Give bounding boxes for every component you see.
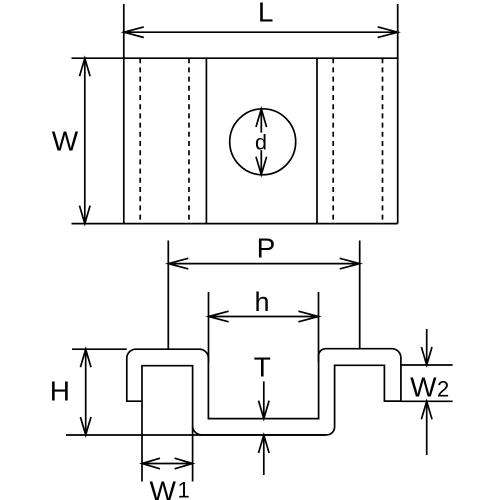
dimension L line	[124, 27, 398, 38]
dimension W2	[401, 329, 453, 455]
svg-text:P: P	[257, 233, 276, 264]
hidden line right leg inner	[382, 58, 384, 223]
top view interior edge right	[316, 58, 318, 223]
svg-text:W: W	[52, 126, 79, 157]
dimension P	[168, 241, 359, 350]
hole circle	[230, 109, 296, 175]
svg-text:L: L	[258, 0, 274, 28]
svg-text:1: 1	[178, 478, 190, 500]
svg-text:T: T	[254, 351, 271, 382]
dimension d arrow	[256, 109, 267, 175]
label W2	[410, 372, 449, 403]
top view outline	[72, 4, 398, 224]
dimension W1	[142, 401, 193, 481]
hidden line right wall	[332, 58, 334, 223]
hidden line left wall	[188, 58, 190, 223]
baseline	[66, 434, 326, 436]
svg-text:H: H	[50, 376, 70, 407]
hidden line left leg inner	[139, 58, 141, 223]
svg-text:h: h	[254, 287, 269, 317]
dimension T arrows	[259, 381, 270, 475]
bottom view part outline	[127, 349, 401, 435]
top view interior edge left	[205, 58, 207, 223]
dimension W line	[80, 58, 91, 223]
svg-text:2: 2	[437, 377, 449, 402]
label W1	[150, 476, 190, 500]
svg-text:W: W	[410, 372, 437, 403]
dimension h	[209, 292, 319, 362]
dimension H	[72, 349, 127, 435]
svg-text:W: W	[150, 476, 177, 500]
svg-text:d: d	[255, 131, 267, 155]
